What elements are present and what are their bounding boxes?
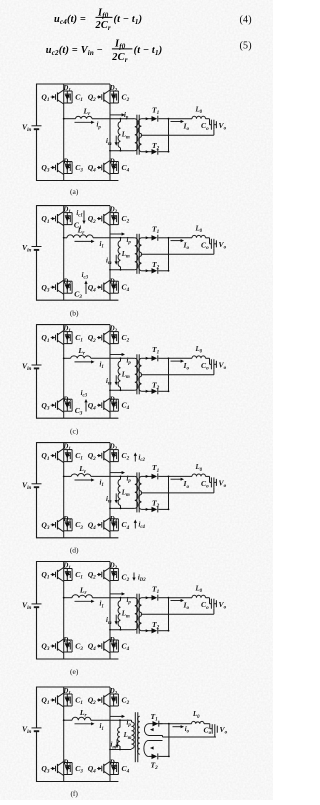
current label i1 xyxy=(75,722,104,732)
wire bottom rail xyxy=(37,417,119,419)
diode D2 xyxy=(109,85,119,103)
wire leg B xyxy=(109,84,111,181)
diode T1 xyxy=(141,225,159,241)
battery Vin xyxy=(22,362,42,373)
node junctions xyxy=(63,237,65,239)
capacitor Co xyxy=(204,724,217,737)
wire center tap xyxy=(141,134,214,136)
wire T1 to node xyxy=(158,118,168,120)
wire output top xyxy=(169,118,193,120)
wire bridge mid xyxy=(64,597,72,599)
transistor Q3 xyxy=(41,161,63,175)
current label i_c1 xyxy=(76,210,85,224)
diode T1 xyxy=(151,712,159,727)
label Vo xyxy=(214,240,227,251)
wire primary bottom xyxy=(110,150,135,152)
current label im xyxy=(106,493,118,504)
transistor Q3 xyxy=(41,518,63,532)
current label ip xyxy=(111,471,132,484)
wire leg B xyxy=(109,443,111,538)
inductor Lm xyxy=(118,476,130,508)
wire bottom rail xyxy=(37,658,119,660)
diode D3 xyxy=(62,159,72,174)
wire primary bottom xyxy=(110,749,132,751)
diode T2 xyxy=(141,381,159,395)
transistor Q2 xyxy=(88,212,110,226)
label Vo xyxy=(214,600,227,611)
current label im xyxy=(106,136,118,147)
wire rectifier node xyxy=(168,598,170,631)
wire T2 to node xyxy=(158,755,169,757)
inductor Lo xyxy=(192,586,206,598)
diode D4 xyxy=(109,637,119,652)
transistor Q2 xyxy=(88,331,110,345)
diode D4 xyxy=(109,396,119,411)
current label im xyxy=(106,255,118,266)
transistor Q1 xyxy=(41,331,63,345)
wire bottom rail xyxy=(37,781,119,783)
transformer secondary xyxy=(139,476,142,509)
transistor Q3 xyxy=(41,639,63,653)
wire left rail xyxy=(36,687,38,728)
wire leg A xyxy=(63,84,65,119)
transistor Q3 xyxy=(41,398,63,412)
wire primary bottom xyxy=(110,629,135,631)
wire bridge mid xyxy=(64,475,71,477)
wire T1 to node xyxy=(158,357,168,359)
wire bridge mid xyxy=(64,357,71,359)
current label i_c3 xyxy=(82,272,89,294)
capacitor C2 xyxy=(114,450,130,462)
label Vo xyxy=(217,725,227,736)
diode D4 xyxy=(109,159,119,174)
label Vo xyxy=(214,361,227,372)
wire primary bottom xyxy=(110,389,135,391)
current label Io xyxy=(171,599,190,611)
current label i1 xyxy=(75,240,104,250)
transistor Q1 xyxy=(41,693,63,707)
wire rectifier node xyxy=(168,358,170,391)
wire left rail xyxy=(36,84,38,126)
wire T1 to node xyxy=(158,597,168,599)
diode T1 xyxy=(141,345,159,361)
transistor Q4 xyxy=(88,280,110,294)
wire T1 to node xyxy=(158,475,168,477)
transistor Q4 xyxy=(88,639,110,653)
transformer secondary xyxy=(138,716,163,756)
capacitor C4 xyxy=(114,763,130,775)
transistor Q1 xyxy=(41,449,63,463)
transistor Q1 xyxy=(41,568,63,582)
node junctions xyxy=(63,118,65,120)
capacitor C1 xyxy=(67,213,82,232)
diode D4 xyxy=(109,760,119,775)
wire center tap xyxy=(141,613,214,615)
transistor Q3 xyxy=(41,762,63,776)
wire Lo to Co xyxy=(206,475,210,477)
capacitor C3 xyxy=(67,640,83,652)
wire top rail xyxy=(37,83,111,85)
current label im xyxy=(106,375,118,386)
inductor Lr xyxy=(71,464,91,476)
current label Io xyxy=(171,478,190,490)
wire leg A xyxy=(63,325,65,359)
wire top rail xyxy=(37,205,111,207)
transistor Q4 xyxy=(88,161,110,175)
current label i1 xyxy=(75,478,104,488)
current label ip xyxy=(75,121,102,131)
transformer core xyxy=(136,115,138,155)
battery Vin xyxy=(22,243,42,254)
diode T1 xyxy=(141,106,159,122)
diode D3 xyxy=(62,637,72,652)
wire Lo to Co xyxy=(206,118,210,120)
transistor Q2 xyxy=(88,449,110,463)
diode T2 xyxy=(141,620,159,634)
capacitor C2 xyxy=(114,213,130,225)
wire T2 to node xyxy=(158,630,168,632)
current label Io xyxy=(171,360,190,372)
diode T2 xyxy=(141,141,159,155)
equation 4 xyxy=(54,7,252,32)
diode T2 xyxy=(141,499,159,513)
wire leg A xyxy=(63,206,65,238)
current label i1 xyxy=(75,360,104,370)
capacitor C2 xyxy=(114,694,130,706)
wire leg B xyxy=(109,687,111,782)
wire T2 to node xyxy=(158,270,168,272)
capacitor C4 xyxy=(114,519,130,531)
inductor Lo xyxy=(192,711,205,724)
current label ip xyxy=(111,112,129,121)
wire left rail xyxy=(36,324,38,365)
capacitor Co xyxy=(201,120,214,136)
node junctions xyxy=(63,719,65,721)
capacitor C3 xyxy=(67,763,83,775)
current label Io xyxy=(171,239,190,251)
wire bottom rail xyxy=(37,180,119,182)
wire output top xyxy=(169,237,193,239)
diode T2 xyxy=(141,260,159,274)
wire Lo to Co xyxy=(206,357,210,359)
transistor Q2 xyxy=(88,568,110,582)
current label i_c4 xyxy=(134,520,146,531)
wire T1 to node xyxy=(158,237,168,239)
label Vo xyxy=(214,479,227,490)
diode D1 xyxy=(62,688,72,706)
transformer core xyxy=(136,594,138,634)
diode T1 xyxy=(141,463,159,479)
inductor Lm xyxy=(118,358,130,390)
current label Io xyxy=(171,120,190,132)
wire leg A xyxy=(63,443,65,477)
inductor Lr xyxy=(76,107,93,119)
capacitor C2 xyxy=(114,91,130,103)
transformer Tr primary xyxy=(133,358,138,390)
capacitor C4 xyxy=(114,399,130,411)
capacitor C3 xyxy=(67,281,82,300)
inductor Lr xyxy=(72,708,91,720)
capacitor C3 xyxy=(67,162,83,174)
capacitor C2 xyxy=(114,332,130,344)
wire Lo to Co xyxy=(204,723,210,725)
diode D2 xyxy=(109,688,119,706)
diode D2 xyxy=(109,207,119,225)
transistor Q4 xyxy=(88,518,110,532)
wire bridge mid xyxy=(64,719,72,721)
label Vo xyxy=(214,121,227,132)
wire Lo to Co xyxy=(206,237,210,239)
diode T1 xyxy=(141,585,159,601)
battery Vin xyxy=(22,601,42,612)
current label im xyxy=(111,739,119,750)
current label i_D2 xyxy=(132,573,146,584)
transformer core xyxy=(136,234,138,274)
transistor Q3 xyxy=(41,280,63,294)
wire rectifier node xyxy=(168,238,170,271)
diode D1 xyxy=(62,326,72,344)
node junctions xyxy=(63,357,65,359)
transformer Tr primary xyxy=(133,476,138,508)
diode D2 xyxy=(109,444,119,462)
diode D3 xyxy=(62,516,72,531)
wire leg B xyxy=(109,206,111,301)
wire bridge mid xyxy=(64,118,76,120)
capacitor C1 xyxy=(67,450,83,462)
transistor Q2 xyxy=(88,90,110,104)
capacitor Co xyxy=(201,239,214,255)
battery Vin xyxy=(22,725,42,736)
diode D1 xyxy=(62,85,72,103)
transistor Q2 xyxy=(88,693,110,707)
diode D4 xyxy=(109,278,119,293)
transistor Q4 xyxy=(88,398,110,412)
wire Lo to Co xyxy=(206,597,210,599)
inductor Lo xyxy=(192,346,206,358)
diode D3 xyxy=(62,760,72,775)
transistor Q4 xyxy=(88,762,110,776)
wire output top xyxy=(169,597,193,599)
wire output top xyxy=(169,475,193,477)
inductor Lr xyxy=(71,346,91,358)
inductor Lo xyxy=(192,226,206,238)
diode D2 xyxy=(109,563,119,581)
diode D1 xyxy=(62,444,72,462)
node junctions xyxy=(63,476,65,478)
diode D1 xyxy=(62,207,72,225)
wire leg A xyxy=(63,687,65,720)
capacitor C3 xyxy=(67,399,82,417)
wire bottom rail xyxy=(37,537,119,539)
inductor Lo xyxy=(192,107,206,119)
wire left rail xyxy=(36,561,38,604)
transformer core xyxy=(136,354,138,394)
diode D2 xyxy=(109,326,119,344)
current label im xyxy=(106,615,118,626)
diode D3 xyxy=(62,278,72,293)
transformer secondary xyxy=(139,598,142,631)
inductor Lr xyxy=(67,226,93,238)
current label i_c2 xyxy=(134,453,146,464)
current label i1 xyxy=(75,600,104,610)
capacitor C2 xyxy=(114,569,130,584)
wire T1 to node xyxy=(159,723,169,725)
current label ip xyxy=(111,715,132,728)
current label ip xyxy=(111,353,132,366)
wire rectifier node xyxy=(168,724,170,757)
wire left rail xyxy=(36,442,38,484)
inductor Lm xyxy=(118,598,130,630)
transformer Tr primary xyxy=(133,598,138,630)
wire T2 to node xyxy=(158,508,168,510)
wire output top xyxy=(169,723,192,725)
wire leg B xyxy=(109,562,111,660)
wire left rail xyxy=(36,205,38,246)
transformer secondary xyxy=(139,358,142,391)
node junctions xyxy=(63,597,65,599)
wire rectifier node xyxy=(168,476,170,509)
capacitor C4 xyxy=(114,281,130,293)
current label ip xyxy=(111,592,132,605)
current label io xyxy=(173,725,190,735)
diode D4 xyxy=(109,516,119,531)
capacitor C1 xyxy=(67,569,83,581)
wire T2 to node xyxy=(158,390,168,392)
wire top rail xyxy=(37,442,111,444)
wire T2 to node xyxy=(158,151,168,153)
wire center tap xyxy=(141,374,214,376)
capacitor C1 xyxy=(67,91,83,103)
wire leg A xyxy=(63,562,65,598)
wire center tap xyxy=(141,492,214,494)
wire center tap xyxy=(141,253,214,255)
capacitor C1 xyxy=(67,332,83,344)
transformer core xyxy=(136,472,138,512)
transformer core xyxy=(134,712,136,762)
transformer Tr primary xyxy=(133,119,138,151)
wire primary bottom xyxy=(110,269,135,271)
inductor Lm xyxy=(118,720,132,749)
capacitor C3 xyxy=(67,519,83,531)
wire top rail xyxy=(37,561,111,563)
inductor Lm xyxy=(118,238,130,270)
wire top rail xyxy=(37,686,111,688)
current label ip xyxy=(111,232,132,245)
inductor Lr xyxy=(72,586,92,598)
wire center tap xyxy=(163,736,217,738)
diode D1 xyxy=(62,563,72,581)
transformer Tr primary xyxy=(133,238,138,270)
wire leg B xyxy=(109,325,111,419)
equation 5 xyxy=(46,38,252,64)
transformer secondary xyxy=(139,238,142,271)
transistor Q1 xyxy=(41,90,63,104)
battery Vin xyxy=(22,480,42,491)
capacitor Co xyxy=(201,477,214,493)
inductor Lm xyxy=(118,119,130,151)
diode T2 xyxy=(149,753,158,771)
current label i_c3 xyxy=(81,390,88,412)
wire primary bottom xyxy=(110,507,135,509)
battery Vin xyxy=(22,122,42,133)
diode D3 xyxy=(62,396,72,411)
capacitor Co xyxy=(201,599,214,615)
wire bottom rail xyxy=(37,299,119,301)
wire bridge mid xyxy=(64,237,67,239)
capacitor C1 xyxy=(67,694,83,706)
wire top rail xyxy=(37,324,111,326)
wire rectifier node xyxy=(168,119,170,152)
transistor Q1 xyxy=(41,212,63,226)
transformer Tr primary xyxy=(132,720,135,748)
transformer secondary xyxy=(138,119,141,152)
inductor Lo xyxy=(192,464,206,476)
wire output top xyxy=(169,357,193,359)
capacitor C4 xyxy=(114,640,130,652)
capacitor C4 xyxy=(114,162,130,174)
capacitor Co xyxy=(201,359,214,375)
